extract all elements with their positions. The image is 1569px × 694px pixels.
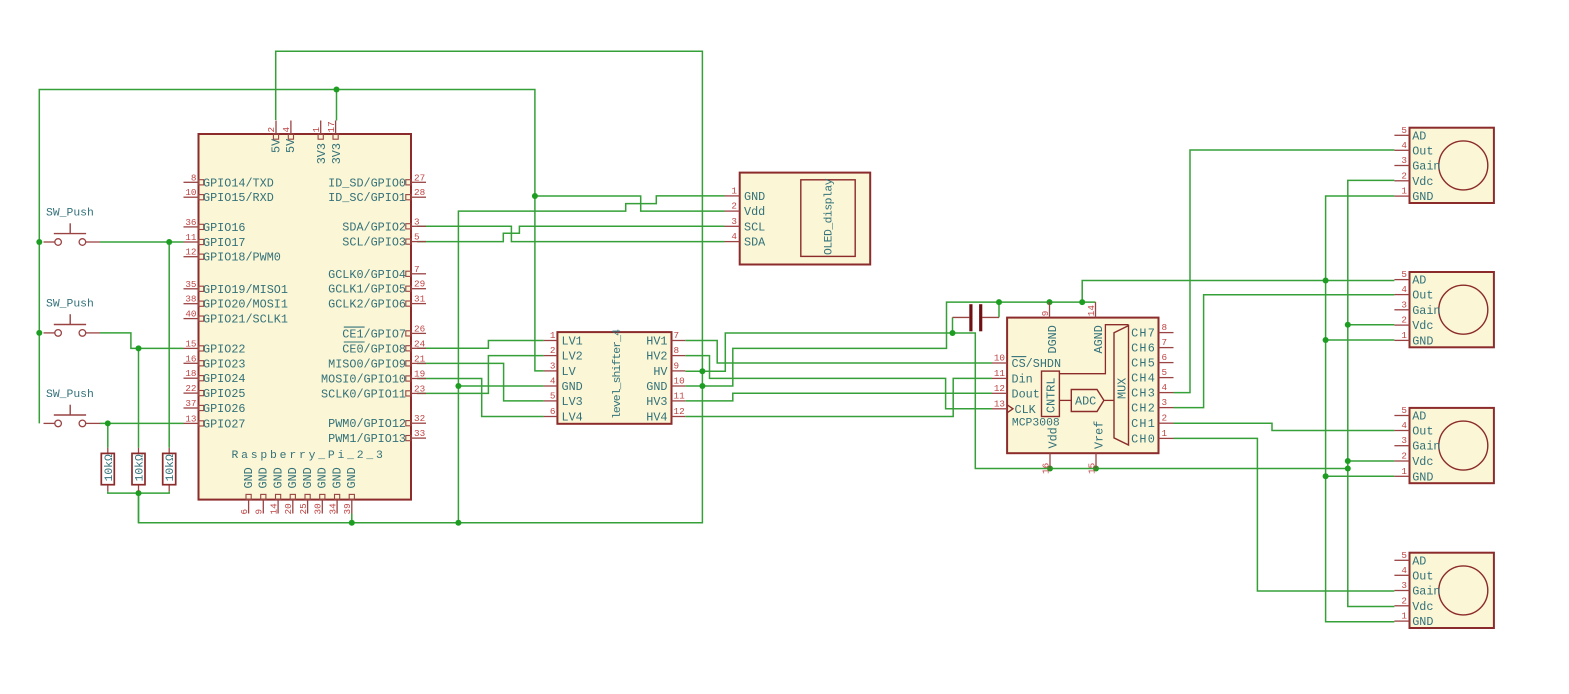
Pi top pin 17 3V3: [335, 121, 337, 135]
Pi pin 33 PWM1/GPIO13: [411, 437, 426, 439]
svg-text:15: 15: [1087, 463, 1098, 474]
Pi bottom pin 25 GND: [307, 500, 309, 514]
wire Pi pin39 GND to rail: [351, 514, 353, 523]
svg-text:GPIO15/RXD: GPIO15/RXD: [203, 191, 274, 205]
Pi pin 19 MOSI0/GPIO10: [411, 378, 426, 380]
svg-text:8: 8: [191, 172, 197, 183]
switch SW3 SW_Push: [44, 405, 101, 427]
junction Vref stub: [1093, 466, 1099, 472]
AD module M2 microphone circle: [1439, 285, 1488, 334]
svg-text:4: 4: [731, 231, 737, 242]
AD module M3 body: [1410, 408, 1494, 483]
AD module M3 pin 3 Gain: [1394, 445, 1409, 447]
svg-text:GND: GND: [562, 380, 583, 394]
svg-text:1: 1: [1162, 428, 1168, 439]
svg-text:MISO0/GPIO9: MISO0/GPIO9: [328, 357, 406, 371]
AD module M3 pin 5 AD: [1394, 415, 1409, 417]
junction DGND stub: [1047, 299, 1053, 305]
svg-text:24: 24: [414, 338, 426, 349]
svg-text:Vdc: Vdc: [1412, 455, 1433, 469]
wire 5V: Pi pin2 up, across top, down right side to GND rail corner: [139, 51, 703, 523]
wire MCP CH3 to AD module1 Out: [1174, 150, 1395, 393]
svg-text:SDA: SDA: [744, 236, 766, 250]
svg-text:DGND: DGND: [1046, 325, 1060, 353]
svg-text:MOSI0/GPIO10: MOSI0/GPIO10: [321, 373, 406, 387]
wire Pi SCL/GPIO3 to OLED SCL (double jog up): [417, 226, 725, 241]
svg-text:GND: GND: [316, 467, 330, 488]
MCP internal CNTRL block: [1042, 371, 1060, 416]
MCP pin 12 Dout: [992, 392, 1007, 394]
AD module M2 pin 4 Out: [1394, 294, 1409, 296]
svg-text:3: 3: [1401, 299, 1407, 310]
svg-text:AD: AD: [1412, 554, 1426, 568]
Pi pin 18 GPIO24: [184, 377, 199, 379]
resistor R2 10k: [132, 448, 147, 491]
svg-text:AD: AD: [1412, 274, 1426, 288]
svg-text:CH6: CH6: [1131, 342, 1156, 356]
svg-text:GCLK1/GPIO5: GCLK1/GPIO5: [328, 283, 406, 297]
wire R3 top to SW1 net: [168, 242, 170, 448]
level shifter pin 3 LV: [544, 370, 558, 372]
svg-text:GND: GND: [1412, 615, 1433, 629]
svg-text:SDA/GPIO2: SDA/GPIO2: [342, 220, 406, 234]
svg-text:33: 33: [414, 428, 425, 439]
MCP pin 15 Vref (bottom): [1095, 453, 1097, 468]
svg-text:3V3: 3V3: [330, 143, 344, 164]
svg-text:GPIO25: GPIO25: [203, 387, 245, 401]
svg-text:GPIO23: GPIO23: [203, 357, 245, 371]
wire MCP CH0 to AD module4 Gain: [1174, 438, 1395, 591]
svg-text:3: 3: [1401, 580, 1407, 591]
svg-text:17: 17: [326, 121, 337, 132]
svg-text:19: 19: [414, 369, 425, 380]
svg-text:HV1: HV1: [646, 335, 667, 349]
svg-text:35: 35: [185, 279, 196, 290]
junction Vdc rail/M3 Vdc: [1345, 458, 1351, 464]
wire Pi CE0/GPIO8 to LV1: [417, 341, 544, 349]
svg-text:10: 10: [674, 376, 685, 387]
svg-text:7: 7: [414, 264, 420, 275]
junction resistor bottoms: [136, 490, 142, 496]
svg-text:9: 9: [674, 360, 680, 371]
svg-text:31: 31: [414, 294, 426, 305]
Pi pin 3 SDA/GPIO2: [411, 225, 426, 227]
MCP pin 16 Vdd (bottom): [1049, 453, 1051, 468]
Pi top pin 1 3V3: [320, 121, 322, 135]
svg-text:GCLK2/GPIO6: GCLK2/GPIO6: [328, 298, 406, 312]
svg-text:10kΩ: 10kΩ: [165, 454, 177, 482]
AD module M2 pin 2 Vdc: [1394, 324, 1409, 326]
wire module3 Vdc to rail: [1348, 460, 1395, 462]
AD module M4 pin 5 AD: [1394, 559, 1409, 561]
AD module M4 pin 2 Vdc: [1394, 605, 1409, 607]
svg-text:GND: GND: [646, 380, 667, 394]
wire module3 GND to rail: [1326, 475, 1395, 477]
svg-text:7: 7: [1162, 337, 1168, 348]
junction cap left/5V: [950, 330, 956, 336]
Pi pin 31 GCLK2/GPIO6: [411, 303, 426, 305]
svg-text:GND: GND: [301, 467, 315, 488]
MCP pin 8 CH7: [1159, 332, 1174, 334]
svg-text:6: 6: [1162, 352, 1168, 363]
svg-text:27: 27: [414, 172, 425, 183]
svg-text:GND: GND: [257, 467, 271, 488]
AD module M1 body: [1410, 128, 1494, 203]
level shifter pin 5 LV3: [544, 400, 558, 402]
junction cap right/GND top: [996, 299, 1002, 305]
OLED pin 4 SDA: [725, 241, 740, 243]
svg-text:SCL/GPIO3: SCL/GPIO3: [342, 236, 406, 250]
svg-text:Vdd: Vdd: [744, 205, 765, 219]
svg-text:16: 16: [185, 353, 196, 364]
svg-text:1: 1: [1401, 330, 1407, 341]
resistor R1 10k: [101, 448, 116, 491]
AD module M1 pin 3 Gain: [1394, 165, 1409, 167]
Pi pin 8 GPIO14/TXD: [184, 181, 199, 183]
svg-text:11: 11: [674, 390, 686, 401]
svg-text:38: 38: [185, 294, 196, 305]
svg-text:1: 1: [311, 127, 322, 133]
junction rail/pin39: [349, 520, 355, 526]
svg-text:Dout: Dout: [1012, 387, 1040, 401]
svg-text:2: 2: [266, 127, 277, 133]
Pi bottom pin 39 GND: [351, 500, 353, 514]
svg-text:GPIO14/TXD: GPIO14/TXD: [203, 176, 274, 190]
svg-text:CNTRL: CNTRL: [1045, 378, 1059, 413]
AD module M3 pin 2 Vdc: [1394, 460, 1409, 462]
svg-text:GCLK0/GPIO4: GCLK0/GPIO4: [328, 268, 406, 282]
svg-text:37: 37: [185, 398, 196, 409]
svg-text:Raspberry_Pi_2_3: Raspberry_Pi_2_3: [232, 450, 386, 462]
Pi pin 37 GPIO26: [184, 407, 199, 409]
Pi pin 35 GPIO19/MISO1: [184, 288, 199, 290]
svg-text:10kΩ: 10kΩ: [135, 454, 147, 482]
junction GND rail/M3 GND: [1323, 473, 1329, 479]
Pi pin 36 GPIO16: [184, 226, 199, 228]
MCP pin 13 CLK with clock wedge: [992, 408, 1007, 410]
svg-text:6: 6: [239, 509, 250, 515]
junction GND rail/M2 GND: [1323, 337, 1329, 343]
junction SW1 wire/R3: [166, 239, 172, 245]
svg-text:CH1: CH1: [1131, 417, 1156, 431]
AD module M4 pin 4 Out: [1394, 574, 1409, 576]
Pi bottom pin 20 GND: [292, 500, 294, 514]
Pi pin 5 SCL/GPIO3: [411, 241, 426, 243]
svg-text:5: 5: [550, 390, 556, 401]
svg-text:CH0: CH0: [1131, 432, 1156, 446]
svg-text:10: 10: [185, 187, 196, 198]
svg-text:GND: GND: [345, 467, 359, 488]
svg-text:13: 13: [185, 413, 196, 424]
junction Vdc rail/5V wire: [1345, 466, 1351, 472]
wire Pi MISO0/GPIO9 to LV3: [417, 363, 544, 401]
svg-text:Vref: Vref: [1093, 421, 1107, 449]
svg-text:CE1/GPIO7: CE1/GPIO7: [342, 327, 406, 341]
svg-text:HV2: HV2: [646, 350, 667, 364]
AD module M3 microphone circle: [1439, 421, 1488, 470]
AD module M1 pin 5 AD: [1394, 134, 1409, 136]
Pi bottom pin 30 GND: [321, 500, 323, 514]
svg-text:3: 3: [550, 360, 556, 371]
svg-text:GND: GND: [1412, 470, 1433, 484]
junction rail/SW2: [36, 330, 42, 336]
Pi pin 24 CE0/GPIO8: [411, 347, 426, 349]
svg-text:7: 7: [674, 330, 680, 341]
svg-text:CH4: CH4: [1131, 372, 1156, 386]
svg-text:OLED_display: OLED_display: [824, 178, 836, 255]
svg-text:GPIO26: GPIO26: [203, 402, 245, 416]
svg-text:5V: 5V: [269, 138, 283, 153]
MCP internal MUX trapezoid: [1114, 326, 1129, 445]
Pi pin 15 GPIO22: [184, 347, 199, 349]
wire module2 GND to rail: [1326, 339, 1395, 341]
svg-text:3: 3: [731, 216, 737, 227]
svg-text:Gain: Gain: [1412, 160, 1440, 174]
level shifter pin 10 GND: [672, 385, 686, 387]
svg-text:PWM1/GPIO13: PWM1/GPIO13: [328, 432, 406, 446]
Pi pin 21 MISO0/GPIO9: [411, 362, 426, 364]
switch SW2 SW_Push: [44, 314, 101, 336]
svg-text:GND: GND: [242, 467, 256, 488]
svg-text:ID_SC/GPIO1: ID_SC/GPIO1: [328, 191, 406, 205]
svg-text:Gain: Gain: [1412, 585, 1440, 599]
svg-text:14: 14: [268, 503, 279, 515]
svg-text:6: 6: [550, 406, 556, 417]
svg-text:AD: AD: [1412, 410, 1426, 424]
svg-text:2: 2: [550, 345, 556, 356]
wire R1 top to SW3 net: [107, 423, 109, 447]
svg-text:HV4: HV4: [646, 411, 667, 425]
Pi pin 23 SCLK0/GPIO11: [411, 392, 426, 394]
switch SW1 SW_Push: [44, 223, 101, 245]
AD module M3 pin 4 Out: [1394, 430, 1409, 432]
junction AD2 riser: [1079, 299, 1085, 305]
svg-text:GPIO24: GPIO24: [203, 372, 245, 386]
svg-text:29: 29: [414, 279, 425, 290]
svg-text:36: 36: [185, 217, 196, 228]
MCP pin 14 AGND (top): [1095, 302, 1097, 318]
svg-text:4: 4: [1162, 382, 1168, 393]
svg-text:1: 1: [1401, 611, 1407, 622]
Pi bottom pin 9 GND: [262, 500, 264, 514]
svg-text:2: 2: [1401, 595, 1407, 606]
MCP internal line CNTRL to AGND/MUX top: [1059, 325, 1128, 374]
svg-text:SW_Push: SW_Push: [46, 208, 94, 220]
svg-text:CLK: CLK: [1015, 403, 1037, 417]
Pi pin 27 ID_SD/GPIO0: [411, 181, 426, 183]
AD module M2 pin 1 GND: [1394, 339, 1409, 341]
svg-text:39: 39: [342, 503, 353, 514]
MCP pin 4 CH3: [1159, 392, 1174, 394]
wire R2 top to SW2 net: [138, 348, 140, 447]
svg-text:13: 13: [994, 398, 1005, 409]
svg-text:23: 23: [414, 383, 425, 394]
resistor R3 10k: [163, 448, 178, 491]
MCP pin 11 Din: [992, 377, 1007, 379]
svg-text:SCLK0/GPIO11: SCLK0/GPIO11: [321, 387, 406, 401]
svg-text:20: 20: [283, 503, 294, 514]
svg-text:CH3: CH3: [1131, 387, 1156, 401]
svg-text:HV: HV: [653, 365, 668, 379]
svg-text:Out: Out: [1412, 569, 1433, 583]
wire resistor join down to GND rail: [138, 493, 140, 523]
svg-text:5: 5: [1401, 269, 1407, 280]
svg-text:22: 22: [185, 383, 196, 394]
svg-text:Out: Out: [1412, 144, 1433, 158]
wire capacitor left lead riser to 5V: [952, 317, 954, 333]
junction SW3 wire/R1: [105, 420, 111, 426]
Pi pin 38 GPIO20/MOSI1: [184, 303, 199, 305]
AD module M2 pin 5 AD: [1394, 279, 1409, 281]
junction Vdd stub: [1047, 466, 1053, 472]
svg-text:2: 2: [731, 201, 737, 212]
svg-text:5: 5: [1162, 367, 1168, 378]
svg-text:LV2: LV2: [562, 350, 583, 364]
svg-text:2: 2: [1401, 315, 1407, 326]
svg-text:GPIO18/PWM0: GPIO18/PWM0: [203, 251, 281, 265]
svg-text:ID_SD/GPIO0: ID_SD/GPIO0: [328, 176, 406, 190]
IC level_shifter_4 body: [557, 332, 671, 424]
level shifter pin 11 HV3: [672, 400, 686, 402]
svg-text:CH2: CH2: [1131, 402, 1156, 416]
MCP pin 3 CH2: [1159, 407, 1174, 409]
OLED pin 3 SCL: [725, 225, 740, 227]
MCP pin 6 CH5: [1159, 362, 1174, 364]
svg-text:4: 4: [1401, 565, 1407, 576]
svg-text:3: 3: [1401, 435, 1407, 446]
svg-text:SCL: SCL: [744, 220, 765, 234]
level shifter pin 9 HV: [672, 370, 686, 372]
level shifter pin 6 LV4: [544, 416, 558, 418]
wire SW3 to GPIO27: [100, 422, 184, 424]
svg-text:3: 3: [1401, 155, 1407, 166]
svg-text:18: 18: [185, 368, 196, 379]
svg-text:8: 8: [674, 345, 680, 356]
svg-text:Din: Din: [1012, 372, 1033, 386]
AD module M4 pin 3 Gain: [1394, 590, 1409, 592]
svg-text:Out: Out: [1412, 425, 1433, 439]
svg-text:34: 34: [327, 503, 338, 515]
svg-text:CE0/GPIO8: CE0/GPIO8: [342, 342, 406, 356]
svg-text:Gain: Gain: [1412, 440, 1440, 454]
junction GND pin10: [699, 383, 705, 389]
svg-text:GPIO17: GPIO17: [203, 236, 245, 250]
svg-text:LV4: LV4: [562, 411, 583, 425]
svg-text:4: 4: [550, 376, 556, 387]
level shifter pin 7 HV1: [672, 340, 686, 342]
svg-text:2: 2: [1401, 170, 1407, 181]
svg-text:11: 11: [994, 368, 1006, 379]
wire Pi SDA/GPIO2 to OLED SDA (jog down): [417, 226, 725, 241]
wire level shifter GND pin4 to GND vertical: [458, 385, 543, 387]
Pi pin 29 GCLK1/GPIO5: [411, 288, 426, 290]
AD module M2 pin 3 Gain: [1394, 309, 1409, 311]
OLED pin 1 GND: [725, 195, 740, 197]
svg-text:26: 26: [414, 323, 425, 334]
svg-text:12: 12: [185, 247, 196, 258]
svg-text:1: 1: [1401, 186, 1407, 197]
svg-text:28: 28: [414, 187, 425, 198]
svg-text:10kΩ: 10kΩ: [104, 454, 116, 482]
svg-text:Vdc: Vdc: [1412, 600, 1433, 614]
junction SW2 wire/R2: [136, 345, 142, 351]
svg-text:4: 4: [1401, 284, 1407, 295]
svg-text:MUX: MUX: [1116, 378, 1130, 399]
Pi bottom pin 14 GND: [277, 500, 279, 514]
wire Pi SCLK0/GPIO11 to LV2: [417, 356, 544, 394]
Pi pin 13 GPIO27: [184, 422, 199, 424]
Pi pin 12 GPIO18/PWM0: [184, 256, 199, 258]
MCP pin 10 CS/SHDN: [992, 362, 1007, 364]
Pi pin 11 GPIO17: [184, 241, 199, 243]
svg-text:9: 9: [254, 509, 265, 515]
wire HV1 to MCP CS/SHDN: [685, 341, 992, 364]
AD module M3 pin 1 GND: [1394, 475, 1409, 477]
svg-text:SW_Push: SW_Push: [46, 298, 94, 310]
svg-text:11: 11: [185, 232, 197, 243]
wire HV2 to MCP CLK: [685, 356, 992, 409]
Pi bottom pin 6 GND: [248, 500, 250, 514]
svg-text:3: 3: [414, 216, 420, 227]
svg-text:32: 32: [414, 413, 425, 424]
AD module M1 pin 2 Vdc: [1394, 180, 1409, 182]
svg-text:AGND: AGND: [1092, 325, 1106, 353]
Pi pin 40 GPIO21/SCLK1: [184, 318, 199, 320]
AD module M2 body: [1410, 272, 1494, 347]
AD module M4 microphone circle: [1439, 566, 1488, 615]
wire SW1 to GPIO17: [100, 241, 184, 243]
AD module M1 pin 1 GND: [1394, 195, 1409, 197]
level shifter pin 12 HV4: [672, 416, 686, 418]
svg-text:GPIO27: GPIO27: [203, 417, 245, 431]
Pi pin 32 PWM0/GPIO12: [411, 422, 426, 424]
level shifter pin 2 LV2: [544, 355, 558, 357]
junction HV pin9: [699, 368, 705, 374]
MCP pin 1 CH0: [1159, 437, 1174, 439]
svg-text:5: 5: [1401, 405, 1407, 416]
wire 3V3 to OLED Vdd (jog down): [535, 196, 725, 211]
svg-text:12: 12: [674, 406, 685, 417]
IC U? Raspberry_Pi_2_3 body: [199, 134, 412, 500]
MCP internal line CNTRL to ADC: [1059, 399, 1071, 401]
svg-text:1: 1: [731, 185, 737, 196]
svg-text:Vdd: Vdd: [1047, 427, 1061, 448]
wire GND: pin10 right, up, across MCP top DGND/AGND: [685, 302, 1095, 386]
wire DGND/AGND branch up to AD module2 AD pin: [1082, 281, 1394, 303]
svg-text:PWM0/GPIO12: PWM0/GPIO12: [328, 417, 406, 431]
MCP internal ADC block: [1071, 390, 1104, 412]
MCP pin 7 CH6: [1159, 347, 1174, 349]
AD module M4 pin 1 GND: [1394, 620, 1409, 622]
svg-text:AD: AD: [1412, 129, 1426, 143]
svg-text:2: 2: [1401, 451, 1407, 462]
junction GND vertical/LV GND: [455, 383, 461, 389]
OLED_display inner screen rect: [801, 180, 855, 257]
capacitor C1 (decoupling): [953, 304, 1000, 331]
wire HV3 to MCP Dout: [685, 393, 992, 401]
svg-text:CS/SHDN: CS/SHDN: [1012, 357, 1062, 371]
MCP pin 9 DGND (top): [1049, 302, 1051, 318]
svg-text:LV1: LV1: [562, 335, 583, 349]
wire MCP CH1 to AD module3 Out: [1174, 423, 1395, 430]
wire capacitor right lead riser to GND top wire: [998, 302, 1000, 317]
svg-text:Gain: Gain: [1412, 304, 1440, 318]
wire GND rail (module1 GND down to module4 GND): [1326, 196, 1395, 622]
wire 3V3 branch to Pi pin17: [336, 90, 338, 121]
svg-text:GPIO19/MISO1: GPIO19/MISO1: [203, 283, 288, 297]
svg-text:4: 4: [281, 127, 292, 133]
svg-text:40: 40: [185, 309, 196, 320]
